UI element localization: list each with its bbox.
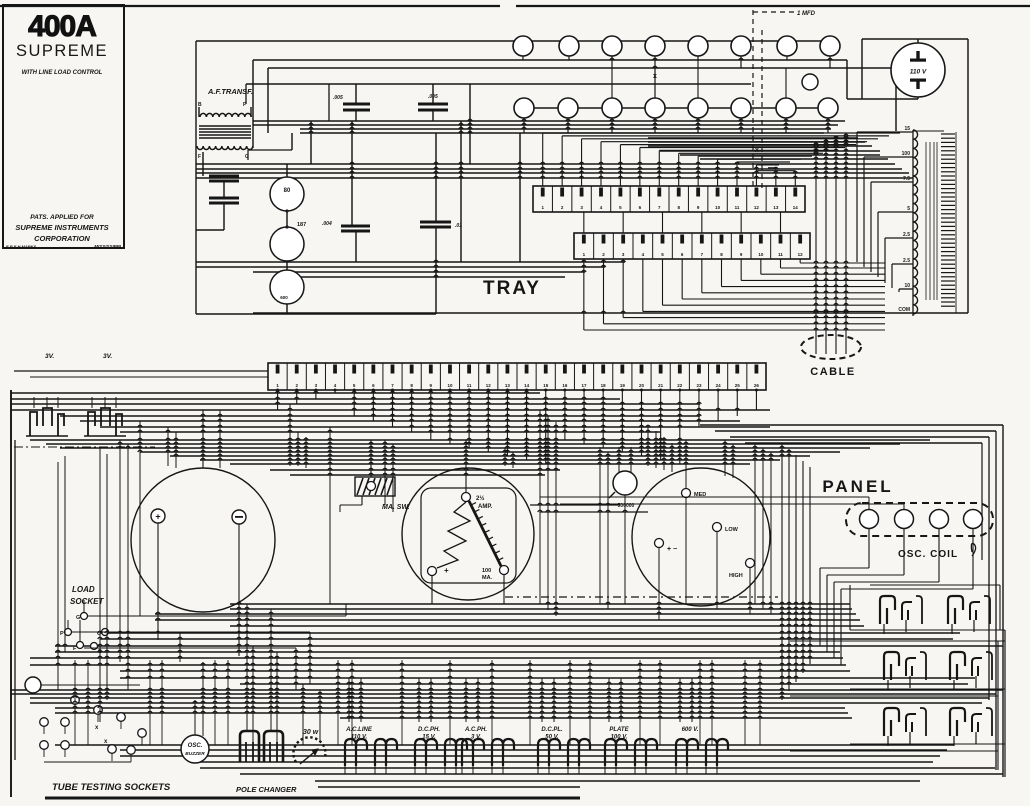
svg-text:POLE CHANGER: POLE CHANGER bbox=[236, 785, 297, 794]
svg-text:SOCKET: SOCKET bbox=[70, 597, 104, 606]
svg-text:80: 80 bbox=[284, 188, 291, 194]
svg-text:E.R.E.H.MARKS: E.R.E.H.MARKS bbox=[6, 244, 37, 249]
svg-text:2.5: 2.5 bbox=[903, 258, 910, 264]
svg-text:14: 14 bbox=[793, 205, 799, 210]
svg-text:12: 12 bbox=[754, 205, 760, 210]
svg-text:F: F bbox=[198, 154, 201, 160]
svg-text:12: 12 bbox=[486, 383, 492, 388]
svg-text:CORPORATION: CORPORATION bbox=[34, 234, 90, 243]
svg-text:15: 15 bbox=[904, 126, 910, 132]
svg-text:PLATE: PLATE bbox=[609, 727, 629, 733]
svg-text:LOAD: LOAD bbox=[72, 585, 95, 594]
svg-text:14: 14 bbox=[524, 383, 530, 388]
svg-text:23: 23 bbox=[696, 383, 702, 388]
svg-text:25: 25 bbox=[735, 383, 741, 388]
svg-text:22: 22 bbox=[677, 383, 683, 388]
svg-text:600: 600 bbox=[280, 295, 288, 300]
svg-text:x: x bbox=[653, 73, 657, 80]
svg-text:MA.: MA. bbox=[482, 575, 493, 581]
svg-text:100: 100 bbox=[902, 151, 911, 157]
svg-text:HIGH: HIGH bbox=[729, 573, 743, 579]
svg-text:12: 12 bbox=[798, 252, 804, 257]
svg-text:SUPREME INSTRUMENTS: SUPREME INSTRUMENTS bbox=[15, 223, 108, 232]
svg-text:AMP.: AMP. bbox=[478, 504, 493, 510]
svg-text:10: 10 bbox=[904, 283, 910, 289]
svg-text:11: 11 bbox=[778, 252, 783, 257]
svg-text:+: + bbox=[155, 512, 160, 522]
svg-text:30 w: 30 w bbox=[303, 729, 319, 736]
svg-text:19: 19 bbox=[620, 383, 626, 388]
svg-text:26: 26 bbox=[754, 383, 760, 388]
svg-text:5: 5 bbox=[907, 206, 910, 212]
svg-text:PANEL: PANEL bbox=[822, 477, 893, 496]
svg-text:OSC. COIL: OSC. COIL bbox=[898, 549, 958, 560]
svg-text:1 MFD: 1 MFD bbox=[797, 11, 816, 17]
svg-text:A.C.PH.: A.C.PH. bbox=[464, 727, 487, 733]
svg-text:10: 10 bbox=[758, 252, 764, 257]
svg-text:400A: 400A bbox=[28, 10, 96, 43]
svg-text:13: 13 bbox=[773, 205, 779, 210]
svg-text:+ −: + − bbox=[667, 546, 677, 553]
svg-text:15: 15 bbox=[543, 383, 549, 388]
svg-text:MISSISSIPPI: MISSISSIPPI bbox=[94, 244, 122, 249]
svg-text:P: P bbox=[60, 631, 64, 637]
svg-text:18: 18 bbox=[601, 383, 607, 388]
svg-text:24: 24 bbox=[716, 383, 722, 388]
svg-text:10: 10 bbox=[447, 383, 453, 388]
svg-text:+: + bbox=[444, 566, 449, 575]
svg-text:10: 10 bbox=[715, 205, 721, 210]
svg-text:OSC.: OSC. bbox=[188, 743, 203, 749]
svg-text:A.C.LINE: A.C.LINE bbox=[345, 727, 373, 733]
svg-text:D.C.PH.: D.C.PH. bbox=[418, 727, 440, 733]
svg-text:3V.: 3V. bbox=[45, 353, 54, 360]
svg-text:7.5: 7.5 bbox=[903, 176, 910, 182]
svg-text:TUBE TESTING SOCKETS: TUBE TESTING SOCKETS bbox=[52, 782, 171, 793]
svg-text:COM: COM bbox=[898, 307, 910, 313]
svg-text:SUPREME: SUPREME bbox=[16, 42, 108, 60]
svg-text:100: 100 bbox=[482, 568, 491, 574]
svg-text:D.C.PL.: D.C.PL. bbox=[541, 727, 563, 733]
svg-text:600 V.: 600 V. bbox=[682, 727, 699, 733]
svg-text:PATS. APPLIED FOR: PATS. APPLIED FOR bbox=[30, 214, 94, 221]
svg-text:2.5: 2.5 bbox=[903, 232, 910, 238]
svg-text:11: 11 bbox=[467, 383, 472, 388]
svg-text:187: 187 bbox=[297, 222, 306, 228]
svg-text:110 V: 110 V bbox=[910, 69, 927, 76]
svg-text:LOW: LOW bbox=[725, 527, 739, 533]
svg-text:TRAY: TRAY bbox=[483, 278, 541, 299]
svg-text:17: 17 bbox=[582, 383, 588, 388]
svg-text:2½: 2½ bbox=[476, 495, 484, 502]
svg-text:WITH LINE LOAD CONTROL: WITH LINE LOAD CONTROL bbox=[22, 70, 103, 76]
svg-text:20: 20 bbox=[639, 383, 645, 388]
svg-text:3V.: 3V. bbox=[103, 353, 112, 360]
svg-text:21: 21 bbox=[658, 383, 664, 388]
svg-text:CABLE: CABLE bbox=[810, 366, 855, 378]
svg-text:.005: .005 bbox=[333, 95, 343, 101]
svg-text:16: 16 bbox=[562, 383, 568, 388]
svg-text:11: 11 bbox=[735, 205, 740, 210]
svg-text:.004: .004 bbox=[322, 221, 332, 227]
svg-text:13: 13 bbox=[505, 383, 511, 388]
svg-text:BUZZER: BUZZER bbox=[185, 751, 205, 757]
svg-text:MA. SW.: MA. SW. bbox=[382, 504, 410, 511]
